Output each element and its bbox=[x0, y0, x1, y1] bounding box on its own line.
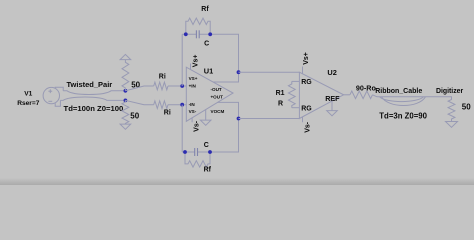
ground top (up) bbox=[120, 54, 131, 59]
supply stub Vs+ U1 bbox=[190, 64, 192, 70]
svg-text:Twisted_Pair: Twisted_Pair bbox=[67, 80, 113, 89]
svg-text:Ribbon_Cable: Ribbon_Cable bbox=[375, 88, 422, 95]
wire bottom row bbox=[182, 119, 238, 153]
node -IN bbox=[180, 103, 184, 107]
svg-text:C: C bbox=[204, 142, 209, 149]
resistor 50 bottom bbox=[122, 100, 129, 124]
svg-text:REF: REF bbox=[325, 94, 340, 103]
svg-text:V1: V1 bbox=[24, 91, 32, 98]
wire +OUT bbox=[218, 102, 239, 118]
svg-text:+OUT: +OUT bbox=[211, 94, 224, 99]
node out_p bbox=[237, 117, 241, 121]
svg-text:Td=3n Z0=90: Td=3n Z0=90 bbox=[379, 112, 427, 121]
svg-text:Ri: Ri bbox=[164, 109, 171, 116]
svg-text:Rf: Rf bbox=[204, 167, 212, 174]
svg-text:Digitizer: Digitizer bbox=[436, 88, 464, 95]
wire -IN down to bottom row bbox=[181, 105, 183, 152]
resistor Rf bottom bbox=[185, 152, 210, 167]
op-amp U2 body bbox=[299, 72, 343, 118]
svg-text:Vs+: Vs+ bbox=[192, 55, 199, 68]
svg-text:R1: R1 bbox=[276, 90, 285, 97]
resistor R1 bbox=[288, 81, 295, 107]
wire out_n to U2 bbox=[239, 71, 300, 73]
op-amp U1 body bbox=[186, 67, 233, 121]
wire pair_p to Ri bbox=[125, 86, 153, 91]
wire V1 bottom to pair bbox=[55, 100, 60, 106]
wire -OUT bbox=[213, 72, 238, 82]
svg-text:U2: U2 bbox=[327, 68, 336, 77]
svg-text:50: 50 bbox=[462, 102, 471, 111]
svg-text:RG: RG bbox=[301, 105, 312, 112]
resistor 50 digitizer bbox=[448, 99, 455, 121]
ground REF bbox=[327, 111, 338, 116]
node pair_n bbox=[124, 99, 128, 103]
ground VOCM bbox=[200, 120, 211, 125]
voltage source V1 bbox=[43, 87, 59, 103]
wire Ri bottom to -IN node bbox=[168, 104, 186, 106]
wire out_p to U2 bbox=[239, 118, 300, 120]
resistor Rf top bbox=[186, 18, 210, 34]
svg-text:VS+: VS+ bbox=[189, 76, 198, 81]
capacitor C top bbox=[196, 30, 199, 38]
wire Ri top to +IN node bbox=[168, 85, 186, 87]
svg-text:-IN: -IN bbox=[189, 102, 196, 107]
node Rf-C left bottom bbox=[183, 150, 187, 154]
svg-text:90-Ro: 90-Ro bbox=[356, 83, 377, 92]
svg-text:Ri: Ri bbox=[159, 73, 166, 80]
RG stub top bbox=[292, 80, 300, 82]
svg-text:Td=100n Z0=100: Td=100n Z0=100 bbox=[64, 104, 124, 113]
svg-text:-OUT: -OUT bbox=[211, 87, 222, 92]
wire U2 out bbox=[344, 94, 350, 96]
resistor Ri bottom bbox=[154, 101, 168, 109]
svg-text:Vs+: Vs+ bbox=[303, 52, 310, 65]
svg-text:50: 50 bbox=[130, 112, 139, 121]
svg-text:Rf: Rf bbox=[201, 6, 209, 13]
RG stub bottom bbox=[292, 107, 300, 109]
supply stub Vs+ U2 bbox=[302, 67, 304, 74]
transmission line Twisted_Pair bbox=[60, 91, 125, 101]
svg-text:VS-: VS- bbox=[189, 109, 197, 114]
node Rf-C left top bbox=[184, 32, 188, 36]
wire REF to ground bbox=[331, 101, 333, 111]
supply stub Vs- U2 bbox=[302, 117, 304, 123]
resistor Ri top bbox=[154, 82, 168, 90]
node out_n bbox=[237, 70, 241, 74]
node Rf-C right bottom bbox=[208, 150, 212, 154]
svg-text:Vs-: Vs- bbox=[305, 121, 312, 133]
supply stub Vs- U1 bbox=[191, 118, 193, 123]
node pair_p bbox=[124, 89, 128, 93]
ground bottom bbox=[120, 124, 131, 129]
resistor 90-Ro bbox=[350, 91, 373, 99]
wire pair_n to Ri bbox=[125, 100, 153, 104]
capacitor C bottom bbox=[195, 148, 198, 156]
wire top row bbox=[182, 34, 238, 72]
transmission line Ribbon_Cable bbox=[380, 97, 426, 106]
node +IN bbox=[180, 84, 184, 88]
svg-text:R: R bbox=[278, 100, 283, 107]
svg-text:Vs-: Vs- bbox=[194, 120, 201, 132]
resistor 50 top bbox=[122, 60, 129, 91]
svg-text:+IN: +IN bbox=[189, 83, 197, 88]
wire to ribbon bbox=[373, 95, 452, 100]
svg-text:RG: RG bbox=[301, 79, 312, 86]
svg-text:C: C bbox=[204, 41, 209, 48]
svg-text:VOCM: VOCM bbox=[211, 109, 225, 114]
node Rf-C right top bbox=[208, 32, 212, 36]
wire +IN up to top row bbox=[181, 34, 183, 86]
svg-text:Rser=7: Rser=7 bbox=[17, 100, 40, 107]
wire V1 top to pair bbox=[55, 87, 63, 91]
ground digitizer bbox=[446, 122, 458, 128]
svg-text:U1: U1 bbox=[204, 67, 213, 76]
wire VOCM to ground bbox=[205, 110, 207, 121]
